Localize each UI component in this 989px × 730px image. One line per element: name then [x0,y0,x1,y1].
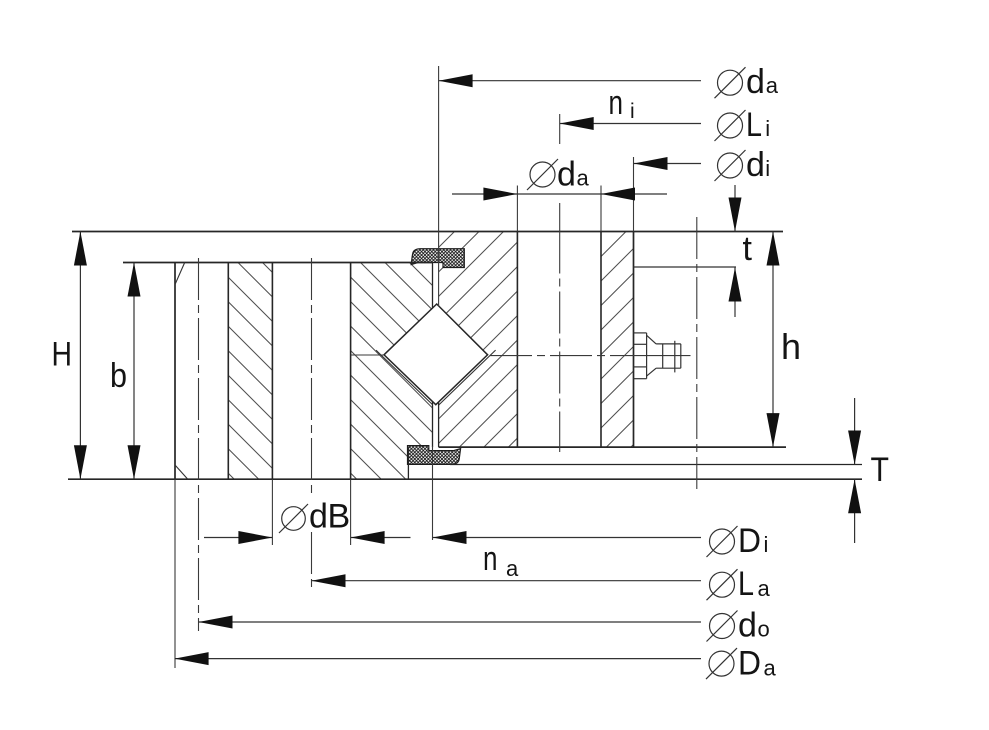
dimension da inner ring hole [452,188,667,201]
svg-text:D: D [738,522,761,560]
label phi-da mid [527,156,590,194]
svg-text:n: n [609,84,624,122]
svg-text:d: d [746,146,765,184]
outer ring seal notch wall [407,447,409,479]
svg-text:d: d [746,63,765,101]
label phi-La [707,565,771,603]
dimension dB and Di row [204,531,701,544]
t dimension arrows [729,185,742,317]
inner ring hole right edge [600,232,602,448]
label phi-da top [715,63,779,101]
label phi-do [707,607,770,645]
Di extension line below seal [432,446,434,540]
H dimension line [74,232,87,480]
outer ring (geared) top surface [123,262,433,264]
gear tip edge [174,263,176,480]
label phi-di [715,146,771,184]
gear root edge [227,263,229,480]
svg-text:a: a [758,576,771,601]
inner ring hole centerline [559,232,561,453]
seal lower [408,446,461,465]
vertical centerline at mount circle [696,217,698,489]
hatch outer-ring body between gear root and bolt hole [228,263,272,480]
svg-text:L: L [746,106,762,144]
ring gap upper slot left [432,263,434,309]
grease nipple shank [656,341,681,373]
dimension di hole circle [634,157,702,170]
b dimension line [128,263,141,480]
grease nipple taper [647,335,657,376]
svg-text:i: i [765,156,770,181]
label phi-Di [707,522,769,560]
dimension do row [199,616,702,629]
rolling element centerline horizontal left piece [351,354,384,356]
seal upper [411,249,464,268]
svg-text:o: o [758,617,770,642]
dimension da outer raceway [439,74,701,87]
hatch inner-ring body right of mounting hole [601,232,634,448]
gear tip chamfer bottom [175,465,188,479]
gear tip chamfer top [175,263,185,285]
hatch inner-ring body left of mounting hole [439,232,518,448]
svg-text:a: a [766,73,779,98]
t reference line [634,266,737,268]
da extension line through upper slot [438,66,440,307]
di extension line [633,157,635,232]
ring gap lower slot left [432,402,434,448]
outer ring top surface line [72,231,783,233]
raceway clearance line lower-left [376,350,433,404]
rolling element centerline horizontal [490,355,614,357]
svg-text:a: a [506,556,519,581]
outer ring gear tip extension below [174,479,176,668]
inner ring hole left extension [516,186,518,232]
T dimension arrows [848,398,861,543]
svg-text:T: T [871,451,890,489]
outer ring hole left extension below [271,479,273,545]
svg-text:d: d [738,607,757,645]
inner ring bottom surface [439,446,786,448]
svg-text:d: d [309,498,328,536]
svg-text:n: n [483,540,498,578]
dimension La row [312,574,702,587]
raceway clearance line lower-right [439,350,496,405]
seal seat line [450,464,862,466]
svg-text:a: a [577,166,590,191]
inner ring hole centerline extension [559,203,561,232]
svg-text:L: L [738,565,754,603]
inner ring hole right extension [600,186,602,232]
dimension Da row [175,652,701,665]
inner ring hole left edge [516,232,518,448]
svg-text:a: a [764,655,777,680]
inner ring bore edge [633,232,635,448]
gear pitch centerline [198,258,200,631]
svg-text:B: B [328,498,351,536]
svg-text:h: h [781,326,801,367]
svg-text:i: i [764,532,769,557]
svg-text:i: i [765,116,770,141]
Li tick [559,114,561,144]
label n_a [483,540,519,581]
svg-text:i: i [630,100,635,123]
outer ring hole centerline [311,258,313,495]
label n_i [609,84,635,123]
ring gap lower slot right [438,402,440,447]
grease nipple hex [634,333,647,379]
hatch outer-ring body between bolt hole and raceway [351,263,433,480]
outer ring hole right extension below [350,479,352,545]
svg-text:H: H [52,336,73,374]
outer ring hole right edge [350,263,352,480]
roller diamond [384,304,488,405]
svg-text:b: b [110,357,127,395]
label phi-Da [706,645,777,683]
svg-text:t: t [743,230,753,268]
svg-text:D: D [738,645,761,683]
svg-text:d: d [557,156,576,194]
dimension Li bolt circle [560,117,701,130]
bottom surface line [68,478,862,480]
label phi-dB [279,498,350,536]
outer ring hole left edge [271,263,273,480]
label phi-Li [715,106,771,144]
h dimension line [767,232,780,448]
